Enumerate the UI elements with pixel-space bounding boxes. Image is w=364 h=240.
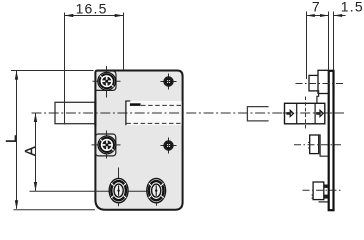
dimension 7/1.5 shared extension line	[328, 12, 330, 71]
middle screw thread nubs	[308, 141, 310, 143]
L top extension line	[11, 70, 94, 72]
rod centerline	[32, 112, 345, 114]
dimension 7 line	[307, 15, 329, 17]
lower plate line	[319, 201, 329, 203]
rod end bracket between views	[247, 107, 268, 121]
dimension 7 arrow right	[320, 14, 329, 17]
side top screw head	[309, 75, 318, 91]
bottom oval screw 1	[109, 178, 128, 202]
top right hole centerlines	[161, 81, 177, 83]
dimension 1.5 arrow	[334, 14, 343, 17]
bottom screws horizontal centerline / A extension	[30, 190, 166, 192]
middle screw centerline vertical	[106, 131, 108, 159]
side top screw washer	[318, 70, 328, 93]
side bottom screw body	[313, 182, 324, 200]
slot top short edge	[125, 100, 130, 102]
block divider right	[314, 103, 316, 124]
adjuster arrow 2	[316, 110, 323, 116]
dimension A arrow bottom	[34, 182, 37, 191]
dimension L line	[16, 71, 18, 209]
dimension 16.5 extension line right	[123, 13, 125, 71]
hidden rod top edge	[141, 104, 181, 106]
bottom screw washer contact bottom	[324, 195, 328, 199]
adjuster arrow 1	[286, 110, 293, 116]
block divider left	[296, 103, 298, 124]
side block with adjusters	[285, 103, 325, 124]
bottom oval screw 1 centerline vertical	[118, 168, 120, 180]
tab between screw and block	[317, 90, 319, 103]
slot key bar	[130, 103, 141, 106]
bottom oval screw 2 centerline stub below	[156, 203, 158, 206]
top screw centerline horizontal	[93, 80, 121, 82]
lower right hole centerlines	[161, 145, 177, 147]
bottom oval screw 2	[147, 178, 166, 202]
block hidden vertical line	[305, 97, 307, 130]
side top screw centerline	[296, 83, 345, 85]
top screw pocket square	[95, 71, 116, 90]
side middle screw head	[310, 135, 319, 154]
slot step edge	[125, 101, 127, 125]
dimension 1.5 extension line right	[333, 12, 335, 71]
dimension 1.5 line with outside arrow	[334, 15, 346, 17]
dimension 7 extension line left	[306, 12, 308, 80]
rod centerline over side block	[283, 112, 344, 114]
middle screw pocket square	[95, 134, 115, 156]
svg-text:7: 7	[312, 0, 320, 15]
side middle screw centerline	[294, 144, 341, 146]
lower right hole	[164, 141, 173, 150]
top screw centerline vertical	[106, 66, 108, 98]
bottom screw washer contact top	[324, 185, 328, 188]
rod	[55, 102, 95, 123]
dimension 16.5 extension line left	[64, 13, 66, 125]
middle screw hook tab	[319, 135, 329, 156]
dimension L arrow bottom	[15, 200, 18, 209]
dimension 16.5 line	[65, 15, 124, 17]
plate left edge over rod	[94, 100, 96, 128]
bottom oval screw 1 centerline stub below	[118, 203, 120, 207]
middle screw centerline horizontal	[92, 144, 121, 146]
dimension L arrow top	[15, 71, 18, 80]
middle screw (cross recessed, washer)	[98, 136, 116, 154]
top right hole	[164, 77, 173, 86]
side bottom screw centerline	[303, 189, 342, 191]
dimension 16.5 arrow right	[115, 14, 124, 17]
svg-text:L: L	[4, 135, 20, 143]
plate (front view body)	[95, 71, 182, 210]
rod slot (white band in plate)	[126, 101, 182, 125]
hidden rod bottom edge	[126, 122, 181, 124]
dimension 7 arrow left	[306, 14, 315, 17]
dimension A line	[35, 113, 37, 191]
bottom screw thread nubs	[312, 194, 314, 196]
dimension A arrow top	[34, 113, 37, 122]
svg-text:16.5: 16.5	[76, 1, 108, 17]
top screw (cross recessed, washer)	[98, 72, 116, 90]
svg-text:1.5: 1.5	[341, 0, 364, 15]
side view mounting plate bar	[329, 71, 334, 210]
L bottom extension line	[14, 209, 96, 211]
svg-text:A: A	[23, 146, 39, 156]
dimension 16.5 arrow left	[65, 14, 74, 17]
